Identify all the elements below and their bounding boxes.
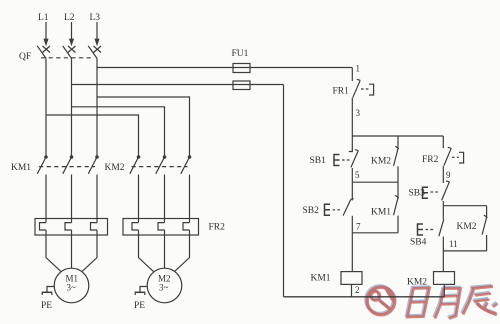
- wire node7 to KM1 coil: [351, 233, 353, 272]
- wire L2 drop: [71, 22, 73, 41]
- QF pole2 blade: [63, 46, 72, 59]
- QF pole1 blade: [37, 46, 46, 59]
- thermal relay FR left bank box: [35, 219, 108, 236]
- FR heater element 1: [40, 223, 47, 230]
- wire KM1 coil to bottom rail: [351, 284, 353, 296]
- contact KM2 seal lower wire: [486, 235, 488, 251]
- contact KM2 seal upper wire: [486, 206, 488, 217]
- svg-text:9: 9: [446, 170, 451, 180]
- wire L3 drop: [96, 22, 98, 41]
- button SB3 blade: [442, 181, 450, 201]
- wire FR2 element2 to motor M2 V: [164, 230, 166, 268]
- SB1 dashed link: [342, 159, 350, 161]
- svg-text:SB4: SB4: [410, 238, 427, 248]
- wire phase B to FU1 fuse2: [72, 84, 284, 86]
- node7 joining line: [352, 232, 398, 234]
- coil KM1: [341, 272, 362, 285]
- contact KM1 aux tick: [395, 195, 399, 198]
- svg-text:KM1: KM1: [11, 163, 31, 173]
- svg-text:2: 2: [355, 285, 360, 295]
- wire node5 down: [351, 182, 353, 200]
- FR1 release symbol: [369, 84, 374, 95]
- button SB4 blade: [439, 219, 444, 236]
- left control return vertical: [283, 85, 285, 297]
- wire node3 vertical FR1 to rail: [351, 98, 353, 136]
- wire FR2 element1 to motor M2 U: [139, 230, 154, 272]
- contact KM1 aux lower wire: [397, 216, 399, 233]
- contactor KM1 pole2: [70, 156, 72, 158]
- FR1 dashed link: [361, 88, 369, 90]
- QF pole3 X contact: [94, 46, 102, 53]
- split line to KM2 aux branch: [443, 205, 486, 207]
- svg-text:KM1: KM1: [311, 274, 331, 284]
- button SB2 actuator E: [325, 204, 331, 215]
- svg-text:FU1: FU1: [232, 49, 249, 59]
- button SB4 actuator E: [418, 224, 424, 235]
- QF pole2 X contact: [68, 46, 76, 53]
- contactor KM2 pole1: [137, 156, 139, 158]
- svg-text:FR2: FR2: [422, 155, 439, 165]
- KM2 linkage dashed: [132, 166, 188, 168]
- FR heater element 2: [65, 223, 72, 230]
- FR2 dashed link: [452, 156, 459, 158]
- wire SB3 to split: [442, 201, 444, 206]
- SB4 dashed link: [426, 229, 435, 231]
- motor M1 circle: [54, 268, 89, 303]
- contactor KM1 pole3: [96, 156, 98, 158]
- svg-text:KM2: KM2: [457, 222, 477, 232]
- svg-text:L3: L3: [90, 13, 101, 23]
- svg-text:KM2: KM2: [105, 163, 125, 173]
- svg-text:SB3: SB3: [409, 189, 426, 199]
- svg-text:5: 5: [355, 170, 360, 180]
- contactor KM2 pole2: [163, 156, 165, 158]
- wire SB1 to node5: [351, 168, 353, 182]
- thermal contact FR2 upper wire: [442, 136, 444, 148]
- contactor KM2 pole3: [188, 156, 190, 158]
- wire phase C to FU1 fuse1: [97, 67, 352, 69]
- thermal relay FR2 bank box: [123, 219, 199, 236]
- svg-text:QF: QF: [19, 52, 31, 62]
- wire SB2 to node7: [351, 216, 353, 233]
- QF linkage dashed: [41, 57, 91, 59]
- button SB2 blade: [343, 199, 354, 216]
- FR2 release symbol: [459, 152, 464, 163]
- svg-text:7: 7: [356, 222, 361, 232]
- wire FR element1 to motor M1 U: [46, 230, 61, 272]
- FR2 heater element 1: [132, 223, 139, 230]
- control rail top: [352, 135, 443, 137]
- contact KM2 aux tick: [395, 146, 399, 149]
- contact KM2 aux lower wire: [397, 166, 399, 182]
- svg-text:FR2: FR2: [209, 223, 226, 233]
- svg-text:3: 3: [356, 108, 361, 118]
- node5 joining line: [352, 181, 398, 183]
- fuse FU1-1 body: [233, 64, 250, 73]
- FR2 contact blade: [444, 147, 451, 165]
- button SB1 blade: [351, 150, 358, 168]
- svg-text:L1: L1: [38, 13, 49, 23]
- svg-text:SB2: SB2: [303, 206, 320, 216]
- contact KM2 seal tick: [484, 215, 488, 218]
- svg-text:PE: PE: [134, 301, 145, 311]
- wire branch phase C to KM2 right pole: [97, 97, 190, 157]
- contact KM2 aux upper wire: [397, 136, 399, 148]
- ground PE1: [47, 287, 54, 293]
- arrow L1: [44, 39, 48, 45]
- wire node9 vertical: [442, 166, 444, 183]
- svg-text:L2: L2: [64, 13, 75, 23]
- watermark red main layer: [367, 287, 497, 319]
- phase A vertical after QF: [45, 58, 47, 156]
- QF pole1 X contact: [43, 46, 51, 53]
- button SB1 upper wire: [349, 136, 353, 152]
- fuse FU1-2 body: [233, 81, 250, 90]
- thermal contact FR1 blade: [353, 79, 361, 98]
- phase B vertical after QF: [71, 58, 73, 156]
- SB2 dashed link: [333, 209, 341, 211]
- FR2 heater element 2: [158, 223, 165, 230]
- svg-text:FR1: FR1: [333, 87, 350, 97]
- motor M2 circle: [147, 268, 182, 303]
- wire fuse1 output corner down: [351, 68, 353, 82]
- wire node11 to KM2 coil: [442, 251, 444, 272]
- button SB3 actuator E: [423, 187, 429, 198]
- wire FR2 element3 to motor M2 W: [175, 230, 190, 272]
- FR heater element 3: [91, 223, 98, 230]
- phase C vertical after QF: [96, 58, 98, 156]
- wire KM2 coil to bottom rail: [443, 284, 445, 296]
- contact KM1 aux upper wire: [397, 182, 399, 197]
- button SB4 upper wire: [442, 206, 444, 220]
- wire branch phase A to KM2 left pole: [46, 115, 139, 157]
- contact KM2 seal blade: [482, 217, 487, 234]
- svg-text:1: 1: [356, 64, 361, 74]
- QF pole3 blade: [88, 46, 97, 59]
- wire L1 drop: [45, 22, 47, 41]
- svg-text:KM2: KM2: [371, 157, 391, 167]
- button SB1 actuator E: [334, 155, 340, 166]
- svg-text:SB1: SB1: [310, 156, 327, 166]
- contactor KM1 pole1: [45, 156, 47, 158]
- contact KM2 aux blade: [394, 149, 399, 166]
- watermark blue shadow layer: [366, 285, 496, 317]
- SB3 dashed link: [431, 191, 439, 193]
- node11 joining line: [443, 250, 486, 252]
- wire SB4 to node11: [442, 237, 444, 251]
- svg-text:KM2: KM2: [407, 278, 427, 288]
- svg-text:3~: 3~: [67, 283, 77, 293]
- wire FR element2 to motor M1 V: [71, 230, 73, 268]
- contact KM1 aux blade: [394, 198, 399, 215]
- wire FR element3 to motor M1 W: [82, 230, 97, 272]
- svg-text:KM1: KM1: [371, 208, 391, 218]
- bottom rail: [284, 296, 445, 298]
- arrow L3: [95, 39, 99, 45]
- arrow L2: [70, 39, 74, 45]
- ground PE2: [140, 287, 147, 293]
- KM1 linkage dashed: [39, 166, 95, 168]
- svg-text:11: 11: [449, 239, 458, 249]
- svg-text:3~: 3~: [159, 283, 169, 293]
- FR2 heater element 3: [183, 223, 190, 230]
- svg-text:PE: PE: [41, 301, 52, 311]
- wire branch phase B to KM2 mid pole: [72, 107, 165, 157]
- coil KM2: [434, 272, 455, 285]
